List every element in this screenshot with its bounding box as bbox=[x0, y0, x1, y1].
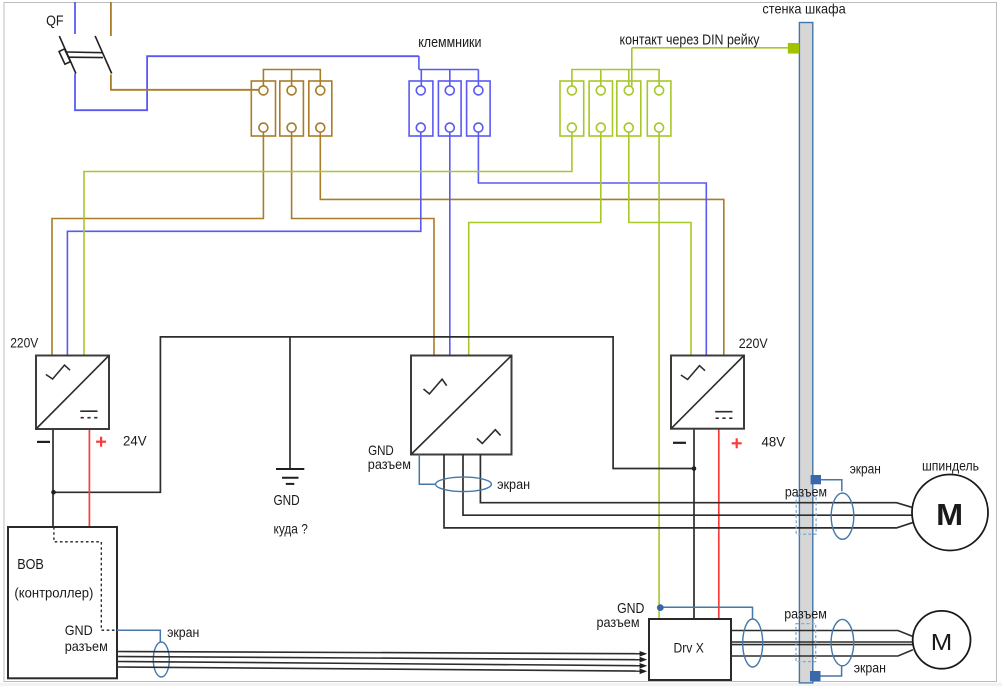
svg-text:220V: 220V bbox=[10, 336, 39, 351]
svg-text:клеммники: клеммники bbox=[418, 35, 481, 51]
svg-text:экран: экран bbox=[854, 661, 886, 676]
svg-text:GND: GND bbox=[65, 622, 93, 638]
svg-text:220V: 220V bbox=[739, 336, 769, 351]
svg-text:GND: GND bbox=[274, 493, 300, 509]
svg-text:BOB: BOB bbox=[17, 557, 44, 573]
svg-text:куда ?: куда ? bbox=[274, 521, 308, 537]
svg-text:экран: экран bbox=[497, 477, 530, 492]
svg-text:экран: экран bbox=[167, 625, 199, 640]
svg-text:экран: экран bbox=[850, 462, 881, 477]
svg-text:разъем: разъем bbox=[65, 638, 108, 654]
svg-text:разъем: разъем bbox=[785, 484, 827, 500]
svg-text:24V: 24V bbox=[123, 433, 147, 448]
svg-text:M: M bbox=[936, 498, 963, 532]
svg-text:48V: 48V bbox=[762, 435, 786, 450]
svg-text:QF: QF bbox=[46, 13, 64, 29]
svg-text:шпиндель: шпиндель bbox=[922, 459, 979, 474]
svg-text:разъем: разъем bbox=[784, 606, 827, 622]
svg-text:разъем: разъем bbox=[597, 614, 640, 630]
svg-text:M: M bbox=[931, 629, 953, 655]
svg-text:Drv X: Drv X bbox=[674, 641, 704, 656]
svg-text:разъем: разъем bbox=[368, 456, 411, 472]
svg-text:стенка шкафа: стенка шкафа bbox=[762, 1, 846, 16]
svg-text:(контроллер): (контроллер) bbox=[14, 585, 93, 601]
svg-text:контакт через DIN рейку: контакт через DIN рейку bbox=[620, 32, 761, 48]
